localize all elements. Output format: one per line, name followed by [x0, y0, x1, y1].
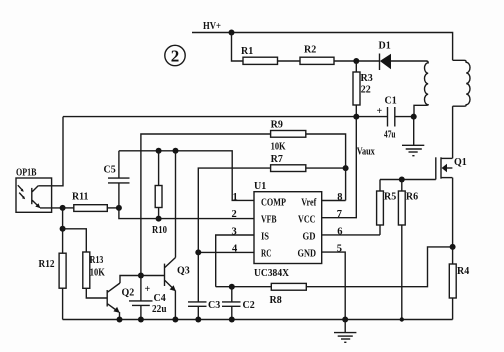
- wire Vaux horizontal: [63, 116, 356, 118]
- svg-text:Q3: Q3: [177, 266, 190, 277]
- wire COMP line to pin1: [119, 151, 254, 201]
- wire R13 to Q2 base: [86, 288, 107, 298]
- svg-text:RC: RC: [261, 248, 272, 259]
- ground bottom: [334, 320, 356, 343]
- svg-text:R10: R10: [152, 225, 167, 236]
- svg-text:R13: R13: [90, 255, 104, 266]
- svg-text:R7: R7: [271, 154, 283, 165]
- svg-text:R5: R5: [384, 192, 396, 203]
- svg-text:COMP: COMP: [261, 198, 286, 209]
- svg-text:22u: 22u: [152, 304, 167, 315]
- resistor R1: [243, 57, 278, 64]
- wire primary to Q1 drain: [452, 106, 454, 158]
- resistor R13: [83, 252, 105, 288]
- svg-text:Vref: Vref: [301, 198, 317, 209]
- junction R11 left: [60, 205, 66, 211]
- svg-text:10K: 10K: [271, 142, 286, 153]
- svg-text:R8: R8: [270, 295, 282, 306]
- wire junction to R13: [63, 229, 87, 252]
- resistor R12: [39, 229, 67, 320]
- wire R1 to R2: [278, 60, 301, 62]
- transformer aux winding: [414, 61, 428, 117]
- junction C2 top: [229, 284, 235, 290]
- wire GND pin5 to ground: [322, 252, 346, 319]
- svg-text:R9: R9: [271, 120, 283, 131]
- wire gate line: [380, 179, 436, 181]
- wire current sense to R8: [306, 247, 452, 287]
- svg-text:R4: R4: [457, 266, 469, 277]
- MOSFET Q1: [436, 157, 467, 180]
- junction R10 bottom: [156, 216, 162, 222]
- svg-text:C1: C1: [385, 96, 397, 107]
- wire VFB pin2 line: [119, 208, 254, 219]
- wire R6 to bottom rail: [401, 225, 403, 320]
- junction Q1 source/R4/sense: [450, 244, 456, 250]
- wire C1 to ground: [413, 117, 415, 146]
- svg-text:C3: C3: [208, 300, 220, 311]
- wire Vaux vertical to VCC pin7: [322, 117, 357, 218]
- svg-text:VFB: VFB: [261, 215, 277, 226]
- svg-text:8: 8: [337, 192, 342, 203]
- svg-text:Q2: Q2: [122, 288, 135, 299]
- svg-text:Q1: Q1: [454, 157, 467, 168]
- wire pin8 stub: [322, 200, 346, 202]
- wire D1 to aux winding: [391, 60, 427, 62]
- resistor R8: [270, 283, 307, 306]
- svg-text:Vaux: Vaux: [357, 147, 375, 158]
- wire R5 to pin6 GD: [322, 234, 380, 236]
- wire R9 right to pin8: [306, 134, 346, 201]
- capacitor C5: [104, 151, 130, 208]
- junction R3/C1/Vaux: [353, 114, 359, 120]
- junction C1/aux/ground: [411, 114, 417, 120]
- transistor Q3: [165, 258, 190, 292]
- junction gate/R6: [399, 177, 405, 183]
- svg-text:C4: C4: [154, 293, 166, 304]
- svg-text:C2: C2: [243, 300, 255, 311]
- svg-text:R1: R1: [241, 46, 253, 57]
- junction C2 rail: [229, 317, 235, 323]
- wire Q3 emitter to rail: [174, 290, 176, 319]
- svg-text:R3: R3: [361, 73, 373, 84]
- svg-text:D1: D1: [379, 41, 391, 52]
- wire R7 to Vref junction: [306, 167, 346, 169]
- svg-text:R2: R2: [304, 45, 316, 56]
- capacitor C4: [129, 276, 167, 320]
- wire Q3 collector riser: [175, 151, 177, 258]
- svg-text:UC384X: UC384X: [254, 268, 290, 279]
- capacitor C1: [356, 96, 413, 141]
- resistor R9: [271, 120, 306, 153]
- svg-text:4: 4: [232, 244, 238, 255]
- resistor R7: [271, 154, 306, 172]
- junction HV+/R1: [229, 30, 235, 36]
- svg-text:R11: R11: [72, 192, 89, 203]
- svg-text:10K: 10K: [90, 268, 105, 279]
- capacitor C2: [222, 287, 255, 320]
- wire R8 to IS riser: [216, 286, 272, 288]
- wire HV+ junction to R1: [232, 33, 244, 62]
- wire RC pin4: [198, 251, 254, 253]
- junction R12/R13 top: [60, 226, 66, 232]
- wire opto collector riser: [38, 117, 63, 186]
- wire opto emitter to R11: [40, 207, 63, 209]
- junction R6 rail: [400, 317, 404, 321]
- pin numbers U1: [232, 192, 343, 255]
- circled 2 marker: [165, 45, 185, 65]
- wire R11 right to C5 junction: [107, 207, 119, 209]
- capacitor C3: [188, 300, 220, 320]
- resistor R3: [353, 61, 373, 117]
- svg-text:2: 2: [171, 47, 180, 66]
- transistor Q2: [107, 283, 134, 313]
- wire bottom rail: [63, 319, 453, 321]
- junction R7/R9/pin8: [343, 165, 349, 171]
- wire Q2 emitter to rail: [119, 312, 121, 320]
- svg-text:R6: R6: [406, 192, 418, 203]
- junction C4 rail: [138, 317, 144, 323]
- wire R7 left riser: [198, 168, 270, 301]
- junction R10 top: [156, 148, 162, 154]
- resistor R6: [398, 180, 418, 226]
- ground near C1: [402, 145, 424, 155]
- svg-text:C5: C5: [104, 165, 116, 176]
- svg-text:GND: GND: [298, 248, 317, 259]
- transformer primary winding: [453, 60, 470, 106]
- resistor R2: [300, 57, 334, 64]
- junction R11/C5: [116, 205, 122, 211]
- optocoupler OP1B: [16, 168, 52, 213]
- svg-text:22: 22: [361, 85, 371, 96]
- junction Q2 emitter rail: [117, 317, 123, 323]
- svg-text:1: 1: [233, 192, 238, 203]
- junction R2/R3 node: [353, 58, 359, 64]
- junction Q3 base/C4: [138, 273, 144, 279]
- junction Q3 collector top: [173, 148, 179, 154]
- svg-text:6: 6: [337, 226, 342, 237]
- wire R11 junction down: [62, 208, 64, 229]
- IC U1 box: [254, 192, 322, 264]
- resistor R10: [152, 151, 167, 236]
- junction C3 rail: [195, 317, 201, 323]
- resistor R5: [377, 180, 397, 235]
- svg-text:IS: IS: [261, 232, 269, 243]
- resistor R11: [63, 192, 108, 212]
- svg-text:GD: GD: [303, 232, 316, 243]
- svg-text:R12: R12: [39, 259, 55, 270]
- wire Q1 source down: [452, 178, 454, 247]
- junction pin5 rail: [342, 317, 348, 323]
- wire R9 left riser to Q3 base node: [141, 134, 271, 276]
- wire Q2 collector to Q3 base: [120, 276, 165, 284]
- svg-text:+: +: [377, 106, 383, 117]
- svg-text:VCC: VCC: [298, 215, 316, 226]
- wire IS pin3: [216, 235, 254, 287]
- diode D1: [379, 41, 392, 71]
- svg-text:U1: U1: [254, 181, 266, 192]
- resistor R4: [449, 247, 469, 320]
- wire HV+ rail: [192, 33, 453, 61]
- svg-text:5: 5: [337, 244, 342, 255]
- svg-text:OP1B: OP1B: [16, 168, 37, 179]
- svg-text:7: 7: [337, 209, 342, 220]
- junction Q3 emitter rail: [172, 317, 178, 323]
- svg-text:47u: 47u: [384, 130, 396, 141]
- pin names U1: [261, 198, 317, 260]
- svg-text:+: +: [145, 284, 151, 295]
- svg-text:HV+: HV+: [203, 21, 221, 32]
- junction RC/R7/C3: [195, 249, 201, 255]
- svg-text:3: 3: [232, 226, 237, 237]
- wire R2 to D1: [334, 60, 380, 62]
